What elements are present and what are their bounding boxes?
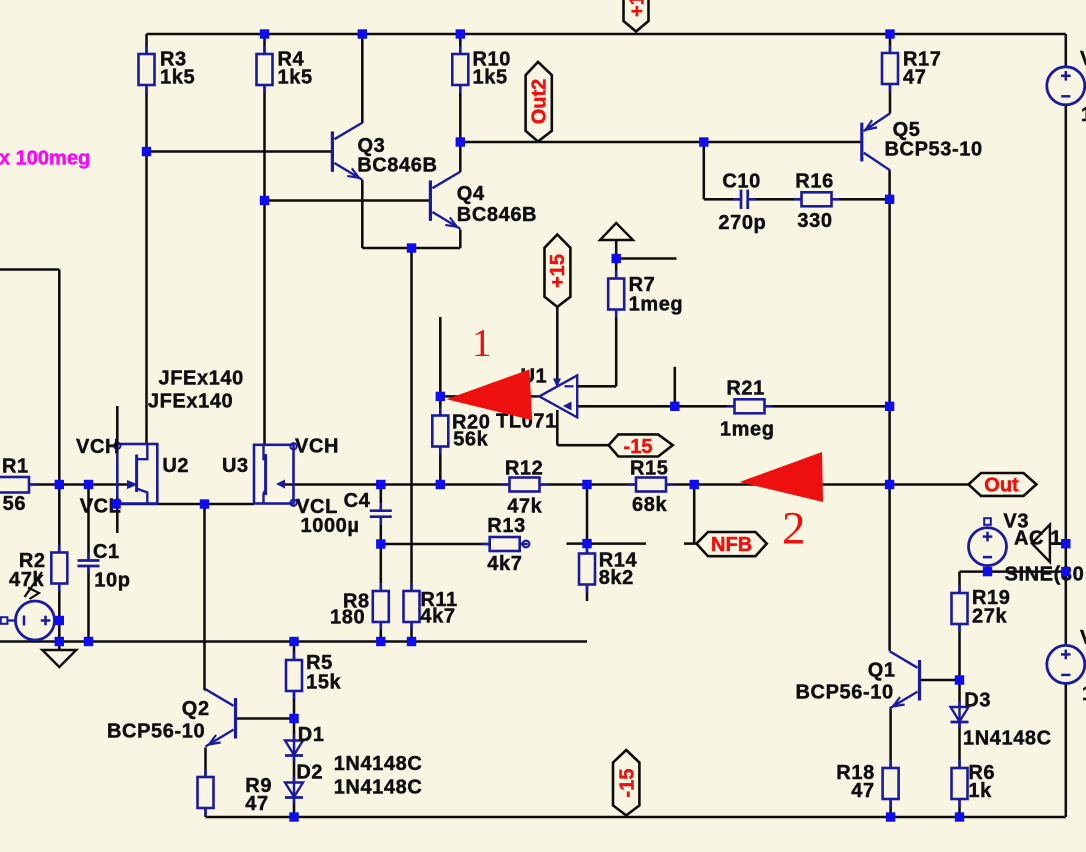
net flag Out (969, 473, 1037, 496)
junction at 59.3,641.5 (55, 637, 64, 646)
wire sources U2-U3 (116, 503, 254, 506)
junction at 987.5,571.6 (983, 567, 992, 576)
svg-text:R13: R13 (487, 515, 526, 537)
wire Q4 collector vertical (459, 142, 462, 172)
wire R15 to Out (665, 483, 969, 486)
svg-text:10p: 10p (94, 570, 130, 592)
wire R17 to Q5 emitter (889, 83, 892, 113)
svg-text:D3: D3 (964, 690, 991, 712)
transistor Q5 symbol (860, 123, 863, 162)
resistor R12 body (502, 483, 548, 486)
resistor R8 body (380, 583, 383, 630)
svg-text:15: 15 (1082, 683, 1086, 705)
power flag +15 top (624, 0, 649, 32)
wire node to D3 (958, 680, 961, 707)
svg-text:+15: +15 (626, 0, 648, 17)
resistor R3 body (145, 46, 148, 93)
junction at 1065.8,543.7 (1061, 539, 1070, 548)
capacitor C4 plates (380, 503, 383, 511)
svg-text:-15: -15 (624, 436, 653, 458)
resistor R4 body (263, 46, 266, 93)
wire Q1 emitter to R18 (889, 709, 892, 768)
svg-text:+15: +15 (547, 254, 569, 288)
junction at 694.2,484.5 (690, 480, 699, 489)
wire NFB stub (684, 542, 697, 545)
annotation arrow 2 (740, 452, 824, 502)
junction at 440.3,396.4 (436, 392, 445, 401)
wire R7 top lead (615, 259, 618, 280)
wire +15 top rail (147, 33, 1066, 36)
junction at 440.3,484.5 (436, 480, 445, 489)
wire stub above R21 node (674, 367, 677, 407)
wire V3 node horizontal (960, 570, 1066, 573)
junction at 411.5,641.5 (407, 637, 416, 646)
junction at 587,543.6 (582, 539, 591, 548)
svg-text:Out2: Out2 (528, 79, 550, 125)
svg-text:D2: D2 (296, 761, 323, 783)
junction at 88.5,484.5 (84, 480, 93, 489)
svg-text:-15: -15 (616, 769, 638, 798)
transistor Q2 symbol (234, 698, 237, 739)
wire right supply rail upper (1065, 34, 1068, 67)
svg-text:1000µ: 1000µ (301, 515, 360, 537)
svg-text:8k2: 8k2 (599, 567, 634, 589)
wire C10 to R16 (748, 198, 801, 201)
power flag -15 bottom (613, 750, 639, 815)
svg-text:x 100meg: x 100meg (0, 148, 90, 170)
wire stub right of R7 node (616, 257, 676, 260)
resistor R9 body (204, 769, 207, 816)
resistor R18 body (889, 760, 892, 807)
antenna symbol (600, 223, 633, 240)
svg-text:R16: R16 (795, 171, 834, 193)
wire D3 to R6 (958, 722, 961, 769)
resistor R20 body (439, 408, 442, 455)
voltage source V3 (969, 528, 1007, 566)
svg-text:U2: U2 (162, 455, 189, 477)
wire R14 branch (586, 485, 589, 555)
wire to C10 (704, 198, 741, 201)
junction at 703.8,142 (699, 137, 708, 146)
wire R12 to R15 (539, 483, 637, 486)
wire right supply rail middle (1065, 105, 1068, 646)
junction at 116,504 (111, 499, 120, 508)
svg-text:V5: V5 (1080, 627, 1086, 649)
wire C4 top lead (380, 485, 383, 511)
wire node to R13 (381, 543, 490, 546)
svg-text:15: 15 (1081, 104, 1086, 126)
junction at 959.5,817 (955, 812, 964, 821)
svg-text:2: 2 (782, 503, 806, 555)
svg-text:VCH: VCH (76, 436, 120, 458)
svg-text:R15: R15 (630, 457, 669, 479)
resistor R1 body (22, 483, 36, 486)
junction at 380.8,544 (376, 539, 385, 548)
junction at 59.3,620.5 (55, 616, 64, 625)
svg-text:Q2: Q2 (182, 698, 210, 720)
diode D1 symbol (293, 735, 296, 762)
resistor R11 body (410, 583, 413, 630)
svg-text:56k: 56k (453, 428, 488, 450)
wire R10 bottom (459, 85, 462, 142)
svg-text:NFB: NFB (711, 534, 752, 556)
wire R2 branch (58, 485, 61, 555)
resistor R10 body (459, 46, 462, 93)
wire input left vertical (58, 270, 61, 485)
wire source node to Q2 (203, 504, 206, 690)
wire Q1 base to R19 node (921, 679, 960, 682)
wire R3 to U2 drain (145, 85, 148, 444)
resistor R14 body (586, 546, 589, 593)
svg-text:JFEx140: JFEx140 (159, 367, 244, 389)
svg-text:BCP53-10: BCP53-10 (885, 139, 983, 161)
svg-text:1k5: 1k5 (473, 67, 508, 89)
svg-text:BCP56-10: BCP56-10 (107, 721, 205, 743)
wire R21 to output rail (765, 405, 890, 408)
transistor Q1 symbol (918, 660, 921, 701)
wire R3 top (145, 34, 148, 54)
wire C10 branch down (703, 142, 706, 199)
wire R6 bottom (958, 797, 961, 817)
annotation arrow at V2 (25, 572, 43, 597)
junction at 362.3,34 (358, 29, 367, 38)
wire R9 bottom corner (204, 808, 207, 817)
wire R10 top (459, 34, 462, 54)
power flag -15 at op-amp (609, 434, 673, 456)
junction at 889.6,199.3 (885, 195, 894, 204)
wire Q2 base to D1 node (237, 717, 294, 720)
svg-text:1: 1 (472, 322, 492, 365)
wire R5 to D1 node (293, 691, 296, 720)
svg-text:47k: 47k (9, 569, 44, 591)
svg-text:1k5: 1k5 (278, 67, 313, 89)
net flag Out2 (526, 62, 552, 142)
svg-text:C1: C1 (93, 541, 120, 563)
resistor R16 body (794, 198, 840, 201)
wire R13 right stub (520, 543, 523, 546)
wire emitters to R11 (410, 248, 413, 591)
svg-text:C4: C4 (344, 490, 371, 512)
wire R7 to opamp input (615, 309, 618, 386)
wire NFB branch (693, 485, 696, 544)
wire R4 top (263, 34, 266, 54)
junction at 264.5,34 (260, 29, 269, 38)
wire U3 gate to signal (285, 483, 510, 486)
wire emitter rail Q3-Q4 (362, 247, 460, 250)
junction at 674.8,406.3 (670, 402, 679, 411)
svg-text:Q4: Q4 (457, 183, 485, 205)
voltage source V5 (1047, 645, 1085, 683)
wire Q1 collector diag corner (888, 650, 891, 653)
junction at 890,34 (885, 29, 894, 38)
resistor R19 body (958, 585, 961, 632)
wire Q3 emitter vertical (361, 180, 364, 248)
ground symbol (58, 642, 61, 651)
power flag +15 at op-amp (545, 235, 571, 307)
svg-text:47: 47 (851, 780, 874, 802)
junction at 460.3,142 (456, 137, 465, 146)
JFET U2 symbol (117, 444, 157, 504)
svg-text:1N4148C: 1N4148C (963, 728, 1052, 750)
junction at 889.6,484.5 (885, 480, 894, 489)
svg-text:1k: 1k (968, 780, 992, 802)
wire U2 VCH stub (116, 406, 119, 444)
junction at 294,718.5 (289, 714, 298, 723)
JFET U3 symbol (254, 445, 294, 504)
wire D1-D2 (293, 756, 296, 783)
junction at 380.8,641.5 (376, 637, 385, 646)
wire antenna stub (615, 240, 618, 259)
wire D1 top lead (293, 720, 296, 741)
transistor Q4 symbol (429, 180, 432, 221)
wire C4 to R8 (380, 517, 383, 591)
junction at 294,817 (289, 812, 298, 821)
pin square V3 (984, 518, 991, 525)
junction at 460.3,34 (456, 29, 465, 38)
svg-text:68k: 68k (632, 494, 667, 516)
wire R4 to U3 drain (263, 85, 266, 445)
resistor R21 body (727, 405, 773, 408)
svg-text:1meg: 1meg (720, 419, 775, 441)
wire R11 bottom (410, 622, 413, 642)
wire Q4 emitter vertical (459, 230, 462, 249)
svg-text:56: 56 (3, 493, 26, 515)
svg-text:270p: 270p (718, 212, 766, 234)
capacitor C1 plates (87, 553, 90, 561)
svg-text:1N4148C: 1N4148C (334, 753, 423, 775)
wire Q2 emitter to R9 (204, 748, 207, 778)
transistor Q3 symbol (331, 131, 334, 172)
svg-text:R21: R21 (726, 377, 765, 399)
svg-text:R1: R1 (2, 456, 29, 478)
wire R8 bottom (380, 622, 383, 642)
wire Q4 base (265, 199, 430, 202)
svg-text:Q5: Q5 (893, 119, 921, 141)
resistor R7 body (615, 271, 618, 318)
wire opamp -input to R21 (577, 405, 734, 408)
resistor R5 body (293, 652, 296, 699)
svg-text:JFEx140: JFEx140 (148, 390, 233, 412)
resistor R17 body (889, 45, 892, 92)
pin circle R13 right (523, 541, 530, 548)
wire R16 to Q5 collector node (832, 198, 890, 201)
wire Q3 collector vertical (361, 34, 364, 123)
svg-text:BC846B: BC846B (457, 204, 537, 226)
annotation arrow 1 (447, 369, 533, 420)
wire input left horizontal (0, 268, 59, 271)
wire D2 bottom (293, 798, 296, 818)
capacitor C10 plates (733, 198, 741, 201)
svg-text:Out: Out (984, 475, 1019, 497)
wire right supply rail lower (1065, 683, 1068, 818)
junction at 59.3,484.5 (55, 480, 64, 489)
wire R20 bottom lead (439, 446, 442, 485)
junction at 890.6,817 (886, 812, 895, 821)
pin circles U3 (290, 443, 296, 449)
wire R18 bottom (889, 797, 892, 817)
svg-text:C10: C10 (722, 171, 761, 193)
wire opamp output (440, 395, 539, 398)
svg-text:180: 180 (330, 607, 365, 629)
junction at 616.2,258.5 (612, 254, 621, 263)
svg-text:47: 47 (245, 793, 268, 815)
pin circles U2 (114, 443, 120, 449)
net flag NFB (697, 532, 767, 556)
junction at 380.8,484.5 (376, 480, 385, 489)
svg-text:SINE(30: SINE(30 (1005, 564, 1085, 586)
junction at 959.5,680 (955, 675, 964, 684)
wire R20 top lead (439, 396, 442, 416)
junction at 411.5,248 (407, 243, 416, 252)
voltage source V2 (16, 601, 55, 640)
diode D2 symbol (293, 777, 296, 804)
wire U2 VCL stub (116, 504, 119, 534)
svg-text:1k5: 1k5 (160, 67, 195, 89)
wire R19 to Q1 base node (958, 624, 961, 680)
annotation AC input arrow (1032, 525, 1050, 562)
diode D3 symbol (958, 701, 961, 728)
pin square V2 (1, 617, 8, 624)
voltage source V4 (1047, 67, 1085, 105)
svg-text:47: 47 (903, 67, 926, 89)
resistor R6 body (958, 760, 961, 807)
svg-text:4k7: 4k7 (487, 553, 522, 575)
junction at 587,484.5 (582, 480, 591, 489)
svg-text:U3: U3 (222, 455, 249, 477)
svg-text:Q1: Q1 (868, 660, 896, 682)
wire Q3 base (147, 150, 332, 153)
wire opamp V- pin (556, 410, 559, 445)
wire down to R19 (958, 572, 961, 593)
junction at 294,641.5 (289, 637, 298, 646)
svg-text:BC846B: BC846B (357, 154, 437, 176)
wire ground rail (0, 640, 587, 643)
wire output rail vertical (888, 170, 891, 651)
resistor R13 body (482, 543, 528, 546)
svg-text:27k: 27k (972, 606, 1007, 628)
svg-text:BCP56-10: BCP56-10 (796, 682, 894, 704)
junction at 204.5,504 (200, 499, 209, 508)
wire R1 to U2 gate (29, 483, 127, 486)
svg-text:15k: 15k (306, 672, 341, 694)
junction at 1065.8,571.6 (1061, 567, 1070, 576)
resistor R2 body (58, 545, 61, 592)
wire stub above R20 node (439, 317, 442, 396)
wire C1 branch (87, 485, 90, 561)
wire Q2 collector corner (205, 689, 206, 692)
op-amp U1 symbol (539, 375, 577, 417)
junction at 264.5,200.5 (260, 196, 269, 205)
wire R17 top (889, 34, 892, 54)
wire V2 minus pin stub (7, 619, 15, 621)
wire V3 bottom lead (986, 566, 989, 572)
svg-text:4k7: 4k7 (420, 606, 455, 628)
wire R14 bottom stub (586, 584, 589, 601)
wire floating segment at R14 node (567, 542, 647, 545)
junction at 146.5,151.5 (142, 147, 151, 156)
wire R5 top (293, 642, 296, 661)
svg-text:330: 330 (797, 210, 832, 232)
wire opamp V+ pin (556, 307, 559, 381)
svg-text:R12: R12 (505, 458, 544, 480)
resistor R15 body (628, 483, 674, 486)
junction at 88.5,641.5 (84, 637, 93, 646)
wire AC arrow stub (1050, 542, 1066, 545)
svg-text:D1: D1 (298, 724, 325, 746)
svg-text:1meg: 1meg (629, 294, 684, 316)
svg-text:1N4148C: 1N4148C (334, 777, 423, 799)
wire Out2 node to Q5 base (460, 141, 861, 144)
junction at 889.6,406.3 (885, 402, 894, 411)
svg-text:V4: V4 (1080, 48, 1086, 70)
svg-text:VCH: VCH (295, 435, 339, 457)
svg-text:47k: 47k (507, 495, 542, 517)
wire -15 bottom rail (206, 816, 1066, 819)
